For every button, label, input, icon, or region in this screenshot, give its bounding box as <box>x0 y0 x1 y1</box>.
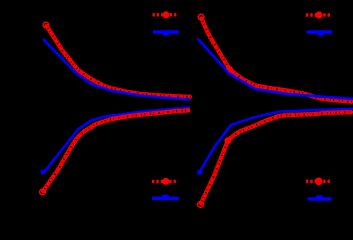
right bottom legend blue entry <box>308 195 332 199</box>
right panel upper blue curve <box>198 39 353 99</box>
left panel lower blue curve <box>41 108 190 175</box>
left top legend blue entry <box>153 32 179 36</box>
right top legend red entry <box>306 11 331 18</box>
left panel upper blue curve <box>43 39 190 100</box>
left panel lower red curve <box>40 109 190 195</box>
left panel upper red curve <box>43 22 191 99</box>
left bottom legend blue entry <box>152 195 179 199</box>
right top legend blue entry <box>307 32 332 36</box>
right panel lower red curve <box>198 111 353 208</box>
left bottom legend red entry <box>152 178 178 185</box>
right panel upper red curve <box>198 14 353 103</box>
right panel lower blue curve <box>197 109 353 175</box>
left top legend red entry <box>153 11 179 18</box>
right bottom legend red entry <box>306 178 332 186</box>
